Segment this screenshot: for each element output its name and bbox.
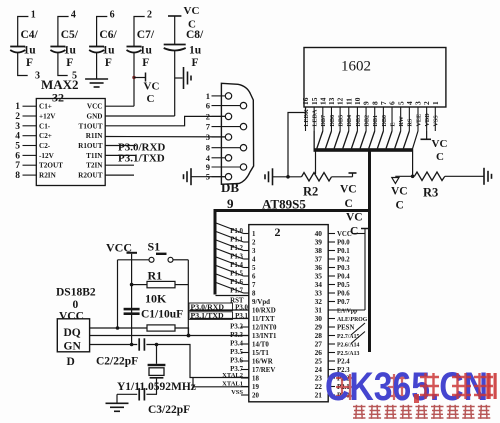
wire bus diagonal to P1.2 xyxy=(216,240,244,251)
svg-text:PESN: PESN xyxy=(337,325,354,332)
svg-text:P0.4: P0.4 xyxy=(337,274,350,281)
wire R3 to ground xyxy=(445,175,484,177)
capacitor C7 top lead xyxy=(134,17,145,47)
junction R2/LEDK xyxy=(286,175,290,179)
svg-text:R2IN: R2IN xyxy=(39,172,57,180)
svg-text:17/REV: 17/REV xyxy=(252,367,275,374)
svg-text:DB6: DB6 xyxy=(330,115,336,127)
LCD pin 12 lead xyxy=(339,107,341,131)
wire XTAL1 from XTAL2 column xyxy=(193,378,249,387)
svg-text:1: 1 xyxy=(252,231,256,238)
svg-text:VCC: VCC xyxy=(87,103,103,111)
AT89S52 right pin 23 stub xyxy=(328,377,335,379)
P1.0 stub xyxy=(244,233,249,235)
svg-text:P1.0: P1.0 xyxy=(230,228,243,235)
svg-text:C1-: C1- xyxy=(39,122,51,130)
svg-text:6: 6 xyxy=(206,101,210,111)
DB9 pin 8 stub xyxy=(212,147,241,149)
wire C5 bottom lead xyxy=(58,52,68,76)
XTAL2 stub xyxy=(241,377,249,379)
svg-text:9: 9 xyxy=(362,101,371,105)
capacitor C5 xyxy=(50,47,65,53)
DB9 pin 1 stub xyxy=(212,95,226,97)
wire DQ to P3.3 xyxy=(90,335,249,337)
LCD pin 15 lead xyxy=(313,107,315,131)
svg-text:C2+: C2+ xyxy=(39,132,52,140)
svg-text:P0.6: P0.6 xyxy=(337,291,350,298)
VCC power bar at LCD VDD xyxy=(421,138,432,140)
LCD pin 14 lead xyxy=(322,107,324,131)
AT89S52 right pin 21 stub xyxy=(328,394,335,396)
svg-text:P0.5: P0.5 xyxy=(337,282,350,289)
svg-text:6: 6 xyxy=(252,274,256,281)
svg-text:1: 1 xyxy=(431,101,440,105)
junction node VCC (dark red) xyxy=(132,76,135,79)
wire S1 left xyxy=(118,259,150,261)
svg-text:P3.6: P3.6 xyxy=(230,358,243,365)
wire LCD pin16 LEDK down to R2 node xyxy=(288,107,306,177)
svg-text:DB4: DB4 xyxy=(347,115,353,127)
DB9 pin 3 stub xyxy=(212,136,226,138)
IC MAX232 body xyxy=(36,99,105,186)
IC AT89S52 body xyxy=(249,225,328,402)
LCD pin 11 hook to bus xyxy=(343,131,349,149)
svg-text:C: C xyxy=(345,198,353,210)
svg-text:R1IN: R1IN xyxy=(86,132,104,140)
svg-text:1u: 1u xyxy=(140,45,153,57)
svg-text:1u: 1u xyxy=(64,45,77,57)
svg-text:5: 5 xyxy=(396,101,405,105)
svg-text:P1.4: P1.4 xyxy=(230,262,243,269)
ground (sideways) left of R2 xyxy=(265,168,273,185)
svg-text:+12V: +12V xyxy=(39,113,56,121)
ground (sideways) right of R3 xyxy=(484,168,492,185)
wire S1 right xyxy=(173,259,188,261)
svg-text:DQ: DQ xyxy=(64,327,81,339)
svg-text:VCC: VCC xyxy=(59,311,84,323)
AT89S52 right pin 33 stub xyxy=(328,292,335,294)
junction R1/VCC xyxy=(130,283,134,287)
svg-text:P1.6: P1.6 xyxy=(230,279,243,286)
svg-text:P1.3: P1.3 xyxy=(230,254,243,261)
wire S1/R1 right vertical to DQ xyxy=(187,260,189,336)
net label box P3.1/TXD xyxy=(189,312,233,320)
junction R3/VEE xyxy=(411,175,415,179)
wire C7 down to MAX232 VCC xyxy=(133,52,135,106)
svg-text:C2/22pF: C2/22pF xyxy=(96,356,138,368)
ground below crystal circuit xyxy=(106,403,129,411)
svg-text:C3/22pF: C3/22pF xyxy=(148,404,190,416)
svg-text:VC: VC xyxy=(144,81,160,93)
AT89S52 right pin 24 stub xyxy=(328,369,335,371)
DB9 pin 6 stub xyxy=(212,105,241,107)
svg-text:Y1/11.0592MHz: Y1/11.0592MHz xyxy=(117,381,196,393)
svg-text:8: 8 xyxy=(370,101,379,105)
svg-text:R2OUT: R2OUT xyxy=(78,172,103,180)
junction C1 bottom xyxy=(130,343,134,347)
XTAL1 stub xyxy=(241,386,249,388)
wire R2OUT stub xyxy=(105,174,134,176)
svg-text:C1+: C1+ xyxy=(39,103,52,111)
svg-text:16: 16 xyxy=(301,97,310,105)
capacitor C3 22pF xyxy=(139,388,144,400)
svg-text:P0.2: P0.2 xyxy=(337,257,350,264)
P1.2 stub xyxy=(244,250,249,252)
svg-text:3: 3 xyxy=(414,101,423,105)
resistor pullup body xyxy=(147,325,175,331)
MAX232 pin 3 stub xyxy=(23,125,37,127)
svg-text:11/TXT: 11/TXT xyxy=(252,316,275,323)
svg-text:DB: DB xyxy=(221,180,239,195)
wire T2IN stub xyxy=(105,164,134,166)
LCD pin 8 lead xyxy=(374,107,376,131)
switch S1 contact left xyxy=(149,257,154,262)
svg-text:VDD: VDD xyxy=(425,113,431,127)
switch S1 contact right xyxy=(168,257,173,262)
svg-text:F: F xyxy=(26,57,33,69)
LCD pin 15 hook to bus xyxy=(313,131,315,149)
LCD pin 3 lead xyxy=(417,107,419,131)
svg-text:C7/: C7/ xyxy=(137,29,155,41)
AT89S52 right pin 29 stub xyxy=(328,326,335,328)
VCC arrow left of R3 xyxy=(392,178,399,184)
AT89S52 right pin 39 stub xyxy=(328,241,335,243)
svg-text:P0.7: P0.7 xyxy=(337,299,350,306)
svg-text:4: 4 xyxy=(15,132,20,142)
VCC power bar top xyxy=(127,252,138,254)
P1.5 stub xyxy=(244,275,249,277)
svg-text:10: 10 xyxy=(353,97,362,105)
svg-text:14: 14 xyxy=(318,97,327,105)
svg-text:GN: GN xyxy=(64,341,82,353)
LCD pin 16 lead xyxy=(305,107,307,131)
connector DB9 shell xyxy=(221,83,253,184)
LCD pin 13 lead xyxy=(330,107,332,131)
DB9 pin 4 stub xyxy=(212,157,226,159)
net label box P3.0/RXD xyxy=(189,303,233,311)
DB9 pin 9 stub xyxy=(212,166,241,168)
wire C3 right xyxy=(146,393,157,395)
AT89S52 right pin 36 stub xyxy=(328,267,335,269)
wire DS GND to C2 xyxy=(90,344,138,346)
svg-text:13: 13 xyxy=(327,97,336,105)
LCD pin 8 hook to bus xyxy=(369,131,375,149)
DB9 pin hole right column xyxy=(240,123,246,129)
svg-text:T1IN: T1IN xyxy=(86,152,103,160)
wire R1IN to DB9 pin3 xyxy=(105,136,225,138)
LCD pin 9 lead xyxy=(365,107,367,131)
svg-text:3: 3 xyxy=(15,122,20,132)
ground stem xyxy=(116,394,118,403)
svg-text:5: 5 xyxy=(252,265,256,272)
P1.3 stub xyxy=(244,258,249,260)
MAX232 pin 6 stub xyxy=(23,154,37,156)
AT89S52 right pin 32 stub xyxy=(328,301,335,303)
MAX232 pin 1 stub xyxy=(23,105,37,107)
MAX232 pin 4 stub xyxy=(23,135,37,137)
svg-text:P3.5: P3.5 xyxy=(230,349,243,356)
bus left vertical to P1/RST xyxy=(214,211,217,295)
svg-text:6: 6 xyxy=(388,101,397,105)
svg-text:2: 2 xyxy=(206,111,210,121)
svg-text:5: 5 xyxy=(15,142,20,152)
svg-text:7: 7 xyxy=(15,161,20,171)
svg-text:9: 9 xyxy=(206,162,210,172)
svg-text:2: 2 xyxy=(147,10,152,21)
svg-text:DB2: DB2 xyxy=(364,115,370,127)
svg-text:P0.0: P0.0 xyxy=(337,240,350,247)
capacitor C8 xyxy=(164,45,186,51)
LCD pin 6 lead xyxy=(391,107,393,131)
wire VCC down to EA/Vpp xyxy=(364,229,366,311)
LCD pin 7 hook to bus xyxy=(377,131,383,149)
svg-text:P3.2: P3.2 xyxy=(230,324,243,331)
svg-text:ALE\PROG: ALE\PROG xyxy=(337,317,368,323)
svg-text:1: 1 xyxy=(206,91,210,101)
wire C8 ground stub xyxy=(175,77,183,79)
svg-text:C: C xyxy=(436,151,444,163)
P3.4 stub xyxy=(241,343,249,345)
wire R1 right xyxy=(175,284,188,286)
LCD pin 2 lead xyxy=(426,107,428,131)
svg-text:P3.1/TXD: P3.1/TXD xyxy=(118,153,165,165)
wire VCC pin40 xyxy=(352,233,365,235)
wire P3.1/TXD xyxy=(190,318,249,320)
wire C4 bottom lead xyxy=(18,52,28,76)
svg-text:3: 3 xyxy=(35,71,40,82)
svg-text:RS: RS xyxy=(408,118,414,126)
svg-text:T2IN: T2IN xyxy=(86,162,103,170)
watermark red comma xyxy=(414,394,419,403)
svg-text:4: 4 xyxy=(405,101,414,105)
P3.6 stub xyxy=(241,360,249,362)
junction DQ/pullup xyxy=(187,334,191,338)
svg-text:E: E xyxy=(390,122,396,126)
svg-text:8: 8 xyxy=(206,143,210,153)
VCC power bar at pin40 xyxy=(361,228,369,230)
AT89S52 right pin 26 stub xyxy=(328,352,335,354)
LCD pin 5 hook to bus xyxy=(395,131,401,149)
svg-text:32: 32 xyxy=(52,91,64,105)
watermark red chinese chars (over .CN) xyxy=(420,373,493,399)
svg-text:C6/: C6/ xyxy=(99,29,117,41)
wire R1 left xyxy=(132,284,147,286)
svg-text:12/INT0: 12/INT0 xyxy=(252,325,277,332)
svg-text:VC: VC xyxy=(340,184,357,196)
svg-text:DB7: DB7 xyxy=(321,115,327,127)
svg-text:T1OUT: T1OUT xyxy=(79,122,103,130)
ground below C6 xyxy=(85,79,108,87)
svg-text:C4/: C4/ xyxy=(21,29,39,41)
bus vertical line xyxy=(368,150,371,352)
wire crystal bottom xyxy=(156,379,158,395)
wire LCD pin3 VEE down to R3 xyxy=(413,131,418,176)
svg-text:1u: 1u xyxy=(102,45,115,57)
wire bus to RST xyxy=(216,295,249,297)
AT89S52 right pin 28 stub xyxy=(328,335,335,337)
LCD pin 14 hook to bus xyxy=(317,131,323,149)
svg-text:7: 7 xyxy=(252,282,256,289)
DB9 pin hole left column xyxy=(225,174,231,180)
svg-text:1602: 1602 xyxy=(341,59,371,75)
svg-text:9: 9 xyxy=(227,196,234,211)
wire bus diagonal to P1.4 xyxy=(216,257,244,268)
P3.7 stub xyxy=(241,369,249,371)
svg-text:21: 21 xyxy=(315,391,323,400)
svg-text:3: 3 xyxy=(206,132,210,142)
MAX232 pin 2 stub xyxy=(23,115,37,117)
wire pullup to DQ xyxy=(175,328,189,336)
wire T1OUT to DB9 pin2 xyxy=(105,116,225,125)
MAX232 pin 8 stub xyxy=(23,174,37,176)
svg-text:EA\Vpp: EA\Vpp xyxy=(337,309,357,315)
DB9 pin hole left column xyxy=(225,134,231,140)
P3.2 stub xyxy=(241,326,249,328)
bus bar under LCD xyxy=(314,148,414,152)
LCD pin 6 hook to bus xyxy=(386,131,392,149)
LCD pin 13 hook to bus xyxy=(325,131,331,149)
AT89S52 right pin 22 stub xyxy=(328,386,335,388)
bus horizontal VCC rail xyxy=(214,209,371,212)
svg-text:R1: R1 xyxy=(148,269,163,283)
watermark red chinese big chars (behind) xyxy=(336,374,408,400)
wire P3.0/RXD xyxy=(190,309,249,311)
svg-text:DB5: DB5 xyxy=(339,115,345,127)
AT89S52 right pin 38 stub xyxy=(328,250,335,252)
DB9 pin 7 stub xyxy=(212,126,241,128)
svg-text:20: 20 xyxy=(252,393,259,400)
svg-text:10/RXD: 10/RXD xyxy=(252,308,276,315)
svg-text:GND: GND xyxy=(87,113,103,121)
svg-text:16/WR: 16/WR xyxy=(252,359,274,366)
wire EA/Vpp row xyxy=(328,309,365,311)
VSS stub xyxy=(241,394,249,396)
svg-text:2: 2 xyxy=(15,112,20,122)
watermark red subtitle 射频和天线设计专家 xyxy=(353,405,490,419)
wire C8 down to MAX232 GND xyxy=(174,50,176,116)
LCD pin 5 lead xyxy=(400,107,402,131)
overbar slash PSEN/P2.7 xyxy=(351,323,365,335)
svg-text:0: 0 xyxy=(73,299,79,311)
capacitor C6 top lead xyxy=(97,17,108,47)
svg-text:7: 7 xyxy=(379,101,388,105)
wire bus bar left end down to R2 xyxy=(315,152,317,175)
svg-text:1: 1 xyxy=(15,102,20,112)
wire VCC vertical through R1/C1 xyxy=(131,254,133,345)
svg-text:F: F xyxy=(66,57,73,69)
svg-text:P1.7: P1.7 xyxy=(230,288,243,295)
DB9 pin hole left column xyxy=(225,113,231,119)
svg-text:1: 1 xyxy=(31,10,36,21)
svg-text:T2OUT: T2OUT xyxy=(39,162,63,170)
capacitor C4 top lead xyxy=(18,17,29,47)
wire R2 right xyxy=(332,176,353,178)
wire C8 top xyxy=(174,16,176,45)
DB9 pin 5 stub xyxy=(212,176,226,178)
P1.6 stub xyxy=(244,284,249,286)
wire LCD pin2 VDD xyxy=(426,131,428,139)
DB9 pin hole left column xyxy=(225,155,231,161)
junction crystal top xyxy=(155,343,159,347)
wire to crystal xyxy=(156,345,158,364)
svg-text:P1.5: P1.5 xyxy=(230,271,243,278)
svg-text:C: C xyxy=(147,93,155,105)
svg-text:-12V: -12V xyxy=(39,152,55,160)
svg-text:F: F xyxy=(192,57,199,69)
P3.5 stub xyxy=(241,352,249,354)
wire bus diagonal to P1.5 xyxy=(216,266,244,277)
svg-text:VC: VC xyxy=(432,138,448,150)
svg-text:VC: VC xyxy=(346,212,363,224)
svg-text:P3.1/TXD: P3.1/TXD xyxy=(191,311,225,320)
svg-text:8: 8 xyxy=(252,291,256,298)
wire S1 left down to VCC node xyxy=(117,260,119,328)
capacitor C5 top lead xyxy=(58,17,69,47)
svg-text:F: F xyxy=(105,57,112,69)
watermark red bars right edge xyxy=(488,373,497,399)
svg-text:F: F xyxy=(142,57,149,69)
svg-text:P3.1: P3.1 xyxy=(235,313,248,320)
junction VCC/S1 xyxy=(116,326,120,330)
P1.1 stub xyxy=(244,241,249,243)
wire R2 to VCC tick xyxy=(352,174,354,177)
wire MAX232 GND to C8 xyxy=(105,115,175,117)
svg-text:P2.6/A14: P2.6/A14 xyxy=(337,343,359,349)
svg-text:C2-: C2- xyxy=(39,142,51,150)
wire bus diagonal to P1.3 xyxy=(216,249,244,260)
svg-text:9/Vpd: 9/Vpd xyxy=(252,299,270,306)
svg-text:C8/: C8/ xyxy=(186,29,204,41)
svg-text:DS18B2: DS18B2 xyxy=(56,287,96,299)
wire ground to C3 xyxy=(117,393,137,395)
AT89S52 right pin 30 stub xyxy=(328,318,335,320)
AT89S52 right pin 40 stub xyxy=(328,233,335,235)
svg-text:2: 2 xyxy=(275,225,281,239)
capacitor C6 xyxy=(89,47,104,53)
AT89S52 right pin 27 stub xyxy=(328,343,335,345)
crystal Y1 xyxy=(148,364,166,379)
MAX232 pin 5 stub xyxy=(23,145,37,147)
svg-text:P1.1: P1.1 xyxy=(230,237,243,244)
wire bus diagonal to P1.7 xyxy=(216,283,244,294)
svg-text:C: C xyxy=(188,19,196,31)
VCC power bar xyxy=(145,73,147,82)
svg-text:RW: RW xyxy=(399,116,405,126)
wire R1OUT stub xyxy=(105,145,136,147)
svg-text:C1/10uF: C1/10uF xyxy=(141,309,183,321)
resistor R3 xyxy=(414,172,444,181)
wire VCC to R3 xyxy=(395,175,414,177)
svg-text:3: 3 xyxy=(252,248,256,255)
svg-text:6: 6 xyxy=(110,10,115,21)
svg-text:8: 8 xyxy=(15,171,20,181)
LCD pin 12 hook to bus xyxy=(334,131,340,149)
LCD pin 10 hook to bus xyxy=(351,131,357,149)
capacitor C7 xyxy=(127,47,142,53)
LCD pin 1 lead xyxy=(434,107,436,131)
DB9 pin hole right column xyxy=(240,145,246,151)
wire bus diagonal to P1.6 xyxy=(216,274,244,285)
AT89S52 right pin 37 stub xyxy=(328,258,335,260)
AT89S52 right pin 25 stub xyxy=(328,360,335,362)
P3.3 stub xyxy=(241,335,249,337)
wire VCC tap stub xyxy=(134,77,145,79)
wire T1IN stub xyxy=(105,154,136,156)
svg-text:R1OUT: R1OUT xyxy=(78,142,103,150)
svg-text:C5/: C5/ xyxy=(61,29,79,41)
svg-text:C: C xyxy=(396,200,404,212)
svg-text:2: 2 xyxy=(252,240,256,247)
